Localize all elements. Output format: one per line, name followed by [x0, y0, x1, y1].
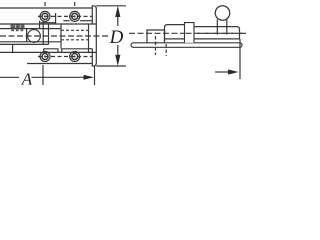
svg-text:A: A	[21, 70, 33, 89]
svg-text:D: D	[109, 27, 124, 48]
